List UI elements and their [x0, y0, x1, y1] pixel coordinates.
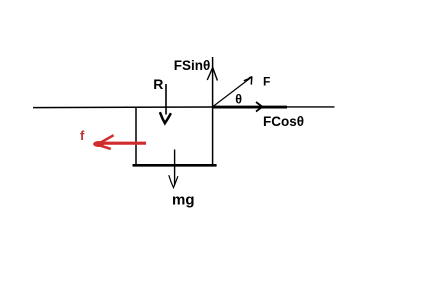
svg-text:FSinθ: FSinθ: [174, 58, 211, 73]
svg-text:θ: θ: [235, 92, 242, 106]
svg-text:F: F: [263, 75, 270, 89]
svg-text:f: f: [80, 128, 85, 143]
svg-text:mg: mg: [172, 191, 195, 208]
svg-text:R: R: [153, 76, 163, 92]
svg-text:FCosθ: FCosθ: [263, 114, 304, 129]
